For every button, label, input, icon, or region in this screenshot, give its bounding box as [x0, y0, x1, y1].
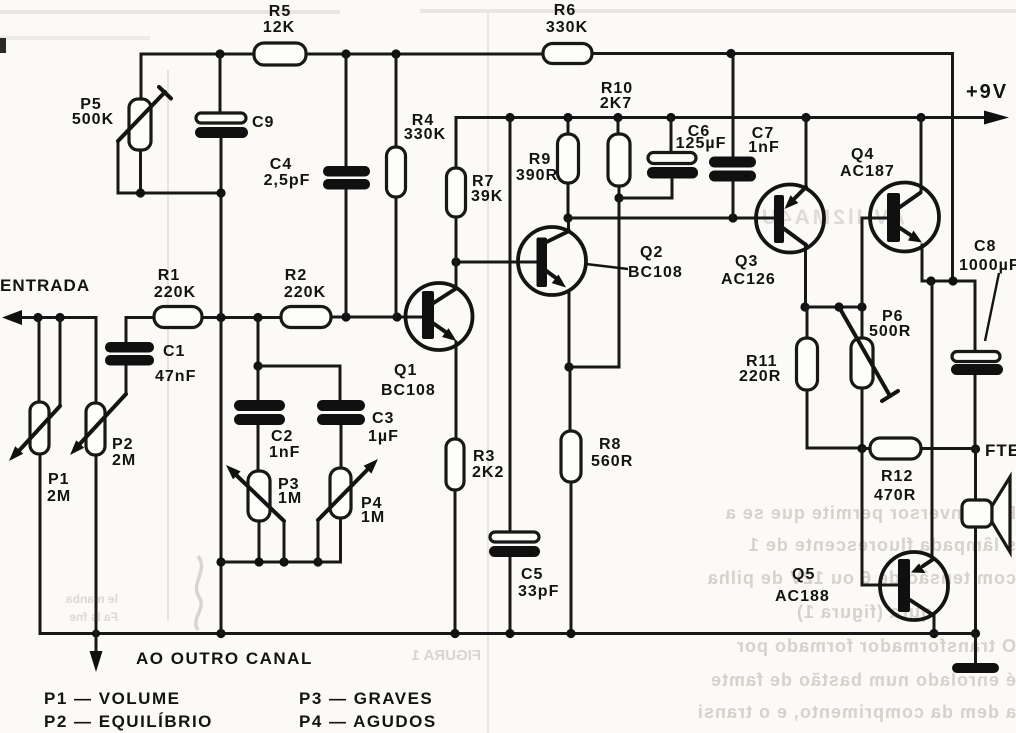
P2 wiper arrow [70, 394, 126, 455]
wire: R8 bottom stub [570, 482, 573, 634]
node: R10 bottom corner [614, 193, 623, 202]
node: input / P1 body [33, 313, 42, 322]
svg-text:AC187: AC187 [840, 163, 895, 180]
svg-text:le manba: le manba [66, 592, 118, 606]
wire: C1 bottom stub [125, 365, 128, 394]
resistor R9 390R [558, 134, 579, 183]
svg-text:1nF: 1nF [748, 139, 779, 156]
resistor R12 470R [870, 438, 921, 459]
transistor Q1 BC108 [406, 283, 473, 350]
svg-text:ENTRADA: ENTRADA [0, 276, 90, 295]
svg-text:C3: C3 [372, 410, 394, 427]
potentiometer P3 1M body [248, 471, 270, 521]
wire: R12 left stub [862, 447, 870, 450]
wire: R7 bottom stub [455, 217, 458, 262]
capacitor C6 125uF [647, 153, 698, 179]
svg-text:R5: R5 [269, 3, 291, 20]
wire: C5 column upper [509, 118, 512, 533]
node: ground / C5 [505, 629, 514, 638]
node: input / P1 wiper [55, 313, 64, 322]
svg-text:33pF: 33pF [518, 583, 559, 600]
label P4 [361, 495, 385, 526]
wire: feedback drop from top rail to output node [951, 54, 954, 282]
wire: Q1 collector stub [455, 262, 458, 289]
capacitor C3 1uF [317, 400, 365, 425]
wire: R4 bottom stub [395, 197, 398, 317]
resistor R11 220R [797, 338, 818, 390]
wire: top rail R5 to R6 [306, 53, 543, 56]
label C4 [264, 156, 311, 189]
wire: ground rail with P1 left riser [40, 454, 976, 634]
label R4 [404, 112, 446, 143]
wire: R10 to C6 bottom L [619, 178, 672, 198]
svg-text:Fa ls fne: Fa ls fne [69, 610, 118, 624]
label R5 [263, 3, 295, 36]
input arrowhead [2, 310, 22, 325]
label Q2 [628, 244, 683, 281]
wire: Q3 emitter stub [805, 118, 808, 189]
node: Q2 emitter / R8 top [564, 362, 573, 371]
potentiometer P4 1M body [330, 468, 351, 518]
node: +9V / Q4 collector [916, 113, 925, 122]
wire: Q1 collector to Q2 base [456, 261, 536, 264]
svg-text:R2: R2 [285, 267, 307, 284]
wire: C2-C3 link with C3 corner [258, 366, 340, 400]
resistor R5 12K [254, 43, 306, 65]
svg-text:BC108: BC108 [381, 382, 436, 399]
transistor Q5 AC188 [880, 552, 948, 620]
resistor R7 39K [447, 168, 466, 217]
wire: Q1 emitter column [455, 342, 458, 439]
svg-text:+9V: +9V [966, 81, 1008, 103]
wire: R2 to Q1 base [331, 316, 421, 319]
wire: Q2 collector row to Q3 base [568, 217, 774, 220]
svg-text:2K2: 2K2 [472, 464, 504, 481]
label P6 [869, 308, 911, 340]
P1 wiper arrow [9, 406, 60, 461]
svg-text:a dem da comprimento, e o tran: a dem da comprimento, e o transi [697, 702, 1016, 722]
wire: Q5 emitter column from output node [931, 281, 934, 560]
svg-text:FIGURA 1: FIGURA 1 [412, 647, 481, 664]
svg-text:470R: 470R [874, 487, 916, 504]
ground symbol [952, 634, 999, 674]
label Q1 [381, 362, 436, 399]
svg-text:Q5: Q5 [792, 566, 815, 583]
svg-text:BC108: BC108 [628, 264, 683, 281]
wire: top rail R6 to right corner [592, 52, 953, 55]
svg-text:1nF: 1nF [269, 444, 300, 461]
label R2 [284, 267, 326, 301]
svg-text:2M: 2M [47, 488, 71, 505]
potentiometer P2 2M body [86, 403, 105, 455]
wire: speaker bottom stub [974, 527, 977, 634]
wire: R3 bottom stub [454, 490, 457, 634]
wire: C5 column lower to ground [509, 557, 512, 634]
svg-text:C1: C1 [163, 343, 185, 360]
node: P5 bottom [136, 188, 145, 197]
capacitor C9 [195, 113, 248, 138]
wire: P1 body top stub [38, 318, 41, 403]
wire: Q4 emitter drop [921, 245, 924, 281]
wire: input line ENTRADA [18, 318, 96, 404]
svg-text:AO OUTRO CANAL: AO OUTRO CANAL [136, 649, 313, 668]
AO OUTRO CANAL arrowhead [90, 651, 103, 672]
label P5 [72, 96, 114, 128]
transistor Q3 AC126 [756, 185, 824, 253]
wire: R11 bottom L to R12 row [807, 390, 862, 448]
wire: C2 top stub [257, 366, 260, 400]
wire: Q2 emitter column [568, 291, 571, 367]
label C3 [368, 410, 399, 445]
wire: Q5 base L [862, 449, 898, 586]
node: ground rail right end [971, 629, 980, 638]
wire: P4 wiper drop [317, 520, 320, 562]
svg-text:500K: 500K [72, 111, 114, 128]
label R11 [739, 353, 781, 385]
svg-text:C9: C9 [252, 114, 274, 131]
svg-text:P4 — AGUDOS: P4 — AGUDOS [299, 712, 437, 731]
wire: C9 column [220, 138, 223, 634]
label C1 [155, 343, 196, 385]
wire: tone bus [221, 561, 341, 564]
wire: C7 column upper [732, 54, 735, 158]
wire: R10 bottom stub [618, 186, 621, 198]
wire: output node row [922, 280, 975, 283]
svg-text:R9: R9 [529, 151, 551, 168]
svg-text:C2: C2 [271, 428, 293, 445]
node: R2-Q1 / C4 column [341, 312, 350, 321]
capacitor C8 1000uF [951, 352, 1003, 376]
svg-text:R1: R1 [158, 267, 180, 284]
svg-text:R8: R8 [599, 436, 621, 453]
svg-text:560R: 560R [591, 453, 633, 470]
capacitor C7 1nF [709, 157, 756, 182]
wire: C1 top L to R1 [126, 318, 154, 343]
node: Q5 collector / ground rail [929, 629, 938, 638]
wire: C2/C3 junction drop [257, 318, 260, 367]
wire: C3 bottom to P4 [340, 425, 343, 468]
node: R7 bottom / Q1 collector [451, 257, 460, 266]
resistor R1 220K [154, 307, 202, 328]
wire: P2 body bottom through ground to other-channel arrow [95, 455, 98, 653]
wire: C2 bottom to P3 [257, 425, 260, 471]
wire: Q5 collector stub [933, 616, 936, 634]
node: +9V / C6 top [666, 113, 675, 122]
svg-text:P2: P2 [112, 436, 134, 453]
svg-text:220R: 220R [739, 368, 781, 385]
wire: R4 top stub [395, 54, 398, 147]
svg-text:2M: 2M [112, 452, 136, 469]
svg-text:AC126: AC126 [721, 271, 776, 288]
P6 wiper diagonal with end bar [839, 307, 898, 401]
wire: C6 top stub [670, 118, 673, 154]
svg-text:47nF: 47nF [155, 368, 196, 385]
label P1 [47, 471, 71, 505]
node: bus / P3 body [254, 557, 263, 566]
svg-text:C8: C8 [974, 238, 996, 255]
wire: R9 top stub [567, 118, 570, 135]
svg-text:500R: 500R [869, 323, 911, 340]
node: base row / C2-C3 drop [253, 313, 262, 322]
wire: C4 column upper [345, 54, 348, 166]
wire: C9 top stub [219, 54, 222, 113]
wire: C8 top column [974, 281, 977, 352]
svg-text:1000µF: 1000µF [959, 257, 1016, 274]
wire: R1 to R2 [202, 316, 281, 319]
resistor R2 220K [281, 307, 331, 328]
svg-text:P1 — VOLUME: P1 — VOLUME [44, 689, 180, 708]
node: +9V / R10 top [613, 113, 622, 122]
svg-text:C4: C4 [270, 156, 292, 173]
label R10 [600, 80, 633, 112]
label R6 [546, 2, 588, 36]
label Q4 [840, 146, 895, 180]
wire: R10 top stub [617, 118, 620, 135]
node: FTE [971, 444, 980, 453]
wire: C7 column lower [732, 182, 735, 218]
node: top rail / C7 column [726, 49, 735, 58]
node: P6 top / Q4 base column [857, 302, 866, 311]
resistor R8 560R [561, 431, 581, 482]
wire: R10 column down to Q2 emitter row [618, 198, 621, 367]
wire: Q2 collector stub [567, 218, 570, 232]
svg-text:1µF: 1µF [368, 428, 399, 445]
node: top rail / R4 column [391, 49, 400, 58]
wire: P3 wiper drop [283, 521, 286, 562]
node: bus / P3 wiper [279, 557, 288, 566]
resistor R10 2K7 [608, 134, 630, 186]
node: C9 column / tone bus [216, 557, 225, 566]
resistor R6 330K [543, 44, 592, 64]
node: Q3 collector / R11 [800, 302, 809, 311]
node: ground / R8 [566, 629, 575, 638]
potentiometer P6 500R body [851, 338, 873, 388]
label C2 [269, 428, 300, 461]
label R1 [154, 267, 196, 301]
wire: Q4 collector stub [920, 118, 923, 193]
capacitor C5 33pF [489, 532, 540, 557]
wire: Q3 collector stub [804, 244, 807, 307]
node: C7 bottom / Q3 base [728, 213, 737, 222]
node: +9V / R9 top [563, 113, 572, 122]
capacitor C2 1nF [234, 400, 285, 425]
svg-text:P1: P1 [48, 471, 70, 488]
svg-text:2K7: 2K7 [600, 95, 632, 112]
node: bus / P4 wiper [313, 557, 322, 566]
wire: Q4 base horizontal [862, 217, 887, 220]
P3 wiper arrow [226, 465, 284, 521]
svg-text:1M: 1M [361, 509, 385, 526]
node: +9V / C5 column [505, 113, 514, 122]
wire: speaker top stub [974, 449, 977, 500]
svg-text:220K: 220K [154, 284, 196, 301]
wire: C4 column lower [345, 189, 348, 317]
svg-text:125µF: 125µF [676, 135, 727, 152]
P4 wiper arrow [318, 459, 378, 520]
svg-text:Q3: Q3 [735, 253, 758, 270]
node: R2-Q1 / R4 column [392, 312, 401, 321]
label R8 [591, 436, 633, 470]
svg-text:220K: 220K [284, 284, 326, 301]
label R3 [472, 448, 504, 481]
wire: P6 bottom stub [861, 388, 864, 449]
svg-text:12K: 12K [263, 19, 295, 36]
svg-text:R3: R3 [473, 448, 495, 465]
transistor Q2 BC108 [518, 227, 586, 295]
svg-text:R12: R12 [881, 468, 913, 485]
svg-text:39K: 39K [471, 188, 503, 205]
wire: P5 wiper drop and bottom link [118, 141, 221, 193]
P5 wiper diagonal with end bar [118, 87, 171, 141]
capacitor C4 2.5pF [323, 166, 370, 190]
node: R9 / Q2 collector [563, 213, 572, 222]
label Q5 [775, 566, 830, 605]
wire: Q4 base column through P6 [861, 218, 864, 338]
svg-text:330K: 330K [546, 19, 588, 36]
wire: P5 top stub and top rail to R5 [141, 54, 254, 99]
label C5 [518, 566, 559, 600]
wire: R11 top stub [806, 307, 809, 338]
wire: R9 bottom stub [567, 183, 570, 218]
svg-text:P3 — GRAVES: P3 — GRAVES [299, 689, 433, 708]
svg-text:2,5pF: 2,5pF [264, 172, 311, 189]
svg-text:330K: 330K [404, 126, 446, 143]
node: output / feedback rail [948, 276, 957, 285]
label P2 [112, 436, 136, 469]
wire: R12 right to FTE [921, 447, 976, 450]
svg-text:1M: 1M [278, 490, 302, 507]
svg-text:R6: R6 [554, 2, 576, 19]
svg-text:C5: C5 [521, 566, 543, 583]
capacitor C1 47nF [105, 342, 154, 366]
wire: P3 body bottom [258, 521, 261, 562]
node: ground / C9 column [216, 629, 225, 638]
svg-text:Q2: Q2 [640, 244, 663, 261]
node: ground / R3 [450, 629, 459, 638]
node: top rail / C4 column [341, 49, 350, 58]
node: R11 / P6 / R12 / Q5 base [857, 444, 866, 453]
svg-text:P2 — EQUILÍBRIO: P2 — EQUILÍBRIO [44, 712, 213, 731]
label C7 [748, 125, 779, 156]
resistor R4 330K [387, 147, 406, 197]
label C6 [676, 123, 727, 152]
svg-text:Q4: Q4 [851, 146, 874, 163]
node: +9V / Q3 emitter [801, 113, 810, 122]
wire: link to Q2 emitter [569, 366, 619, 369]
pointer line to Q2 [586, 264, 628, 269]
wire: P4 body bottom [339, 518, 342, 562]
node: ground / P2 arrow column [92, 630, 100, 638]
node: C9 bottom junction [216, 188, 225, 197]
+9V arrowhead [984, 111, 1009, 125]
label P3 [278, 476, 302, 507]
wire: C8 bottom column to FTE [974, 374, 977, 449]
svg-text:390R: 390R [516, 167, 558, 184]
svg-text:AC188: AC188 [775, 588, 830, 605]
potentiometer P1 2M body [30, 402, 49, 454]
pointer line to C8 [985, 273, 999, 341]
label Q3 [721, 253, 776, 288]
wire: P5 body bottom stub [139, 150, 142, 193]
node: output / Q5 emitter [926, 276, 935, 285]
speaker FTE [962, 477, 1010, 552]
resistor R3 2K2 [446, 439, 464, 490]
label R12 [874, 468, 916, 504]
svg-text:Q1: Q1 [394, 362, 417, 379]
wire: P1 wiper drop [59, 318, 62, 407]
node: R1-R2 / C9 column [216, 313, 225, 322]
label C8 [959, 238, 1016, 274]
svg-text:FTE: FTE [985, 441, 1016, 460]
svg-text:O transformador formado por: O transformador formado por [736, 636, 1016, 656]
node: C2/C3 junction [253, 361, 262, 370]
label R7 [471, 173, 503, 205]
label R9 [516, 151, 558, 184]
transistor Q4 AC187 [870, 183, 939, 252]
node: top rail / C9 top [215, 49, 224, 58]
wire: R11-P6 top row [805, 306, 862, 309]
potentiometer P5 500K body [129, 99, 151, 150]
wire: R8 top stub [569, 367, 572, 431]
node: P6 wiper tap [834, 302, 843, 311]
wire: +9V rail with R7 top stub [456, 118, 986, 169]
